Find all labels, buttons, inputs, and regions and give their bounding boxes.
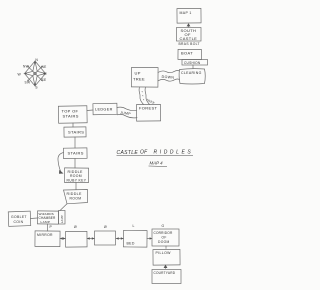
svg-text:STAIRS: STAIRS: [68, 151, 84, 156]
svg-text:MIRROR: MIRROR: [37, 233, 53, 237]
svg-text:BOAT: BOAT: [181, 51, 193, 56]
svg-text:COIN: COIN: [14, 220, 24, 224]
svg-text:BED: BED: [127, 242, 135, 246]
svg-text:TREE: TREE: [133, 77, 145, 82]
svg-text:CUSHION: CUSHION: [184, 61, 201, 65]
svg-text:STAIRS: STAIRS: [63, 114, 79, 119]
svg-text:STAIRS: STAIRS: [68, 130, 84, 135]
svg-text:LAMP: LAMP: [60, 215, 64, 223]
svg-text:MAP 4: MAP 4: [150, 161, 164, 166]
svg-text:ROOM: ROOM: [70, 197, 82, 201]
svg-text:BRAS BOLT: BRAS BOLT: [179, 42, 200, 46]
svg-text:OF: OF: [140, 150, 148, 156]
svg-text:UP: UP: [135, 71, 141, 76]
svg-text:RIDDLE: RIDDLE: [67, 192, 83, 196]
svg-text:LAMP: LAMP: [41, 220, 51, 224]
svg-text:CLEARING: CLEARING: [181, 71, 202, 75]
svg-text:E: E: [45, 72, 48, 76]
svg-text:GOBLET: GOBLET: [11, 215, 27, 219]
svg-text:W: W: [17, 73, 21, 77]
svg-text:RUBY KEY: RUBY KEY: [67, 179, 87, 183]
svg-text:N: N: [35, 58, 38, 62]
svg-text:L: L: [133, 224, 135, 228]
svg-text:FOREST: FOREST: [139, 106, 158, 111]
svg-text:NW: NW: [23, 65, 29, 69]
svg-text:ROOM: ROOM: [70, 174, 82, 178]
svg-text:LEDGER: LEDGER: [95, 108, 113, 112]
svg-text:RIDDLES: RIDDLES: [154, 149, 194, 155]
svg-text:PILLOW: PILLOW: [156, 251, 172, 255]
svg-text:CASTLE: CASTLE: [117, 150, 139, 156]
svg-text:P: P: [50, 225, 53, 229]
svg-text:COURTYARD: COURTYARD: [154, 271, 176, 275]
svg-text:Ø: Ø: [74, 225, 77, 229]
svg-text:OF: OF: [162, 235, 167, 239]
svg-text:G: G: [162, 224, 165, 228]
svg-text:MAP 1: MAP 1: [180, 11, 192, 15]
svg-text:S: S: [35, 86, 38, 90]
svg-text:NE: NE: [42, 65, 47, 69]
svg-text:SW: SW: [25, 81, 31, 85]
svg-text:CASTLE: CASTLE: [180, 36, 198, 41]
svg-text:DOOM: DOOM: [158, 240, 170, 244]
svg-text:SE: SE: [42, 78, 47, 82]
svg-text:Ø: Ø: [104, 225, 107, 229]
